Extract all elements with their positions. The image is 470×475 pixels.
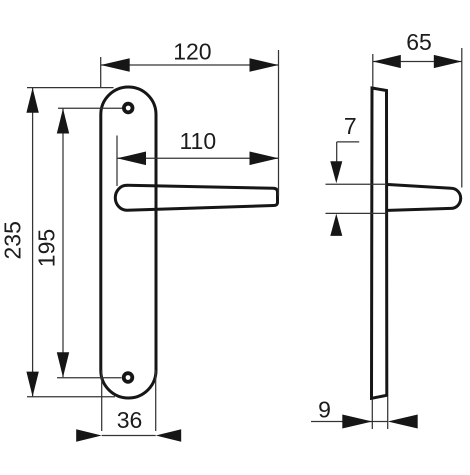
dimension 110	[117, 136, 279, 187]
dimension 195	[57, 108, 122, 378]
screw hole bottom	[122, 371, 134, 383]
dimension 9	[311, 397, 388, 430]
svg-text:195: 195	[33, 229, 59, 267]
svg-text:7: 7	[344, 113, 357, 139]
svg-text:36: 36	[117, 407, 143, 433]
dimension 120	[101, 50, 279, 196]
svg-text:235: 235	[0, 221, 26, 259]
svg-text:120: 120	[173, 39, 211, 65]
plate side	[372, 88, 387, 398]
dimension 7	[326, 142, 387, 214]
dimension 65	[373, 48, 462, 188]
svg-text:9: 9	[318, 397, 331, 423]
handle side	[388, 185, 461, 211]
screw hole top	[122, 102, 134, 114]
svg-text:110: 110	[179, 128, 216, 154]
svg-text:65: 65	[406, 29, 432, 55]
handle front	[115, 185, 277, 210]
dimension 235	[27, 88, 115, 397]
dimension 36	[102, 370, 156, 436]
plate front	[101, 87, 156, 398]
